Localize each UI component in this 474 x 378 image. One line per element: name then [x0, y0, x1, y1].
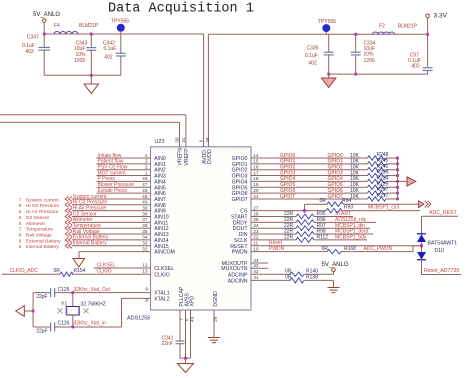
wire to Reset_AD7739 [421, 259, 423, 274]
svg-text:XTAL2: XTAL2 [154, 296, 170, 302]
junction 3.3V rail [426, 33, 429, 36]
svg-text:ADC_PWDN: ADC_PWDN [364, 246, 393, 252]
crystal Y1 32.768KHZ [72, 293, 74, 307]
svg-text:48: 48 [142, 176, 148, 182]
svg-text:10%: 10% [76, 52, 87, 58]
svg-text:38: 38 [142, 211, 148, 217]
junction C334 top [354, 33, 357, 36]
pin 7 PLLCAP with capacitor C341 [179, 310, 181, 341]
wire crystal left rail [32, 293, 34, 327]
svg-text:32Khz_Xtal_in: 32Khz_Xtal_in [74, 321, 106, 327]
svg-text:GPIO7: GPIO7 [280, 194, 296, 200]
svg-text:10K: 10K [350, 194, 360, 200]
wire AIN9 net row [65, 208, 68, 213]
svg-text:R140: R140 [306, 268, 318, 274]
svg-text:28: 28 [205, 137, 211, 143]
wire GPIO1 row with resistor R245 10K [251, 163, 368, 165]
svg-text:Data Acquisition 1: Data Acquisition 1 [108, 2, 254, 17]
wire PWDN row with resistor R168 0R net ADC_PWDN [251, 251, 327, 253]
svg-text:12: 12 [142, 262, 148, 268]
svg-text:CLKIO: CLKIO [97, 269, 112, 275]
svg-text:R93: R93 [344, 204, 353, 210]
svg-text:21: 21 [253, 194, 259, 200]
svg-text:TPY555: TPY555 [111, 18, 129, 24]
svg-text:DVDD: DVDD [207, 149, 213, 164]
svg-text:22pF: 22pF [36, 328, 47, 334]
ground left block [90, 75, 92, 84]
svg-text:BLM21P: BLM21P [398, 23, 418, 29]
svg-text:0.1uF: 0.1uF [104, 46, 117, 52]
svg-text:6: 6 [19, 215, 22, 221]
ground analog bottom [185, 358, 187, 363]
wire XTAL2 drop [121, 298, 123, 327]
pin 8 XTAL2 wire [122, 297, 151, 299]
svg-text:CLKIO_ADC: CLKIO_ADC [10, 268, 39, 274]
pin 6 AVDD [203, 34, 205, 147]
junction C343 top [90, 33, 93, 36]
svg-text:43: 43 [253, 263, 259, 269]
svg-text:CLKSEL: CLKSEL [97, 262, 116, 268]
junction CS [302, 208, 307, 213]
svg-text:Reset_AD7739: Reset_AD7739 [424, 268, 459, 274]
wire 5V rail [44, 33, 203, 35]
svg-text:Hi Air Pressure: Hi Air Pressure [26, 209, 59, 215]
wire AIN6 net row [97, 192, 151, 194]
svg-text:External Battery: External Battery [26, 238, 61, 244]
svg-text:CLKIO: CLKIO [154, 272, 170, 278]
pin 44 MUXOUTP stub [251, 262, 268, 264]
wire AIN10 net row [65, 214, 68, 219]
wire AIN11 net row [65, 220, 68, 225]
pin 49 XPD [190, 310, 192, 358]
svg-text:0R: 0R [320, 198, 327, 204]
ground DGND [208, 337, 220, 339]
pin 41 ADCINN with resistor R138 0R [251, 279, 290, 281]
svg-text:System current: System current [26, 197, 60, 203]
svg-text:37: 37 [142, 217, 148, 223]
svg-text:22nF: 22nF [162, 341, 173, 347]
resistor R93 0R [326, 208, 342, 212]
svg-text:R138: R138 [306, 274, 318, 280]
svg-text:3.3V: 3.3V [434, 13, 448, 20]
svg-text:6: 6 [19, 232, 22, 238]
wire RESET row net Reset [251, 245, 422, 247]
svg-text:49: 49 [189, 316, 195, 322]
svg-text:BAT54AWT1: BAT54AWT1 [428, 241, 458, 247]
svg-text:30: 30 [175, 137, 181, 143]
svg-text:ADCINP: ADCINP [228, 272, 248, 278]
svg-text:47: 47 [142, 182, 148, 188]
svg-text:ADS1258: ADS1258 [127, 315, 150, 321]
svg-text:8: 8 [145, 298, 148, 304]
svg-text:2: 2 [145, 165, 148, 171]
wire GPIO pull bus [397, 158, 399, 199]
wire VREFP to left edge [0, 114, 186, 116]
svg-text:F4: F4 [54, 23, 60, 29]
off-page connector GPIO arrow [398, 180, 408, 182]
wire GPIO6 row with resistor R227 10K [251, 192, 368, 194]
svg-text:29: 29 [213, 316, 219, 322]
svg-text:13: 13 [142, 269, 148, 275]
resistor R97 22R row net MCBSP1_din [251, 227, 296, 229]
wire GPIO4 row with resistor R234 10K [251, 180, 368, 182]
pin 43 MUXOUTN stub [251, 267, 268, 269]
svg-text:R217: R217 [377, 193, 389, 199]
svg-text:C335: C335 [307, 46, 319, 52]
svg-text:6: 6 [19, 209, 22, 215]
svg-text:15: 15 [253, 159, 259, 165]
svg-text:U23: U23 [155, 139, 165, 145]
wire AIN13 net row [65, 231, 68, 236]
svg-text:44: 44 [253, 258, 259, 264]
wire GPIO7 row with resistor R217 10K [251, 198, 368, 200]
pin 31 VREFP [185, 115, 187, 147]
wire GPIO3 row with resistor R239 10K [251, 175, 368, 177]
svg-text:402: 402 [308, 61, 317, 67]
ground right block [328, 74, 330, 78]
svg-text:32.768KHZ: 32.768KHZ [81, 302, 106, 308]
svg-text:402: 402 [104, 55, 113, 61]
resistor R98 22R row net MCBSP1_dout [251, 233, 296, 235]
svg-text:VREFP: VREFP [184, 148, 190, 166]
svg-text:D10: D10 [435, 248, 445, 254]
svg-text:6: 6 [19, 221, 22, 227]
svg-text:Altimeter: Altimeter [26, 221, 46, 227]
svg-text:C125: C125 [58, 287, 70, 293]
junction diode center [420, 244, 423, 247]
svg-text:Hi O2 Pressure: Hi O2 Pressure [26, 203, 60, 209]
svg-text:1206: 1206 [364, 58, 375, 64]
svg-text:34: 34 [142, 235, 148, 241]
wire analog ground bar [180, 357, 191, 359]
capacitor C343 [90, 34, 92, 48]
resistor R94 0R branch [304, 204, 306, 210]
svg-text:Internal Battery: Internal Battery [26, 244, 60, 250]
svg-text:Y1: Y1 [61, 302, 67, 308]
capacitor C334 [355, 34, 357, 52]
svg-text:6: 6 [198, 139, 204, 142]
pin 12 CLKSEL wire [93, 267, 150, 269]
svg-text:TPY556: TPY556 [318, 19, 336, 25]
svg-text:32: 32 [142, 246, 148, 252]
capacitor C347 [43, 34, 45, 47]
svg-text:42: 42 [253, 269, 259, 275]
wire ADC_REST drop [421, 216, 423, 234]
wire 3.3V rail [208, 33, 427, 35]
svg-text:AINCOM: AINCOM [154, 250, 175, 256]
pin 5 AVSS [185, 310, 187, 358]
resistor R95 22R row net START [251, 216, 296, 218]
svg-text:7: 7 [19, 227, 22, 233]
svg-text:14: 14 [253, 153, 259, 159]
capacitor C342 [120, 34, 122, 53]
resistor R96 22R row net ADS1256_rdy [251, 221, 296, 223]
wire VREFN to left edge [0, 121, 180, 123]
svg-text:6: 6 [19, 203, 22, 209]
svg-text:BLM21P: BLM21P [79, 23, 99, 29]
svg-text:0.1uF: 0.1uF [305, 53, 318, 59]
svg-text:ADCINN: ADCINN [228, 278, 248, 284]
resistor R112 22R row net MCBSP1_bdx [251, 239, 296, 241]
svg-text:10uF: 10uF [74, 46, 85, 52]
svg-text:XPD: XPD [189, 296, 195, 307]
svg-text:CLKSEL: CLKSEL [154, 266, 174, 272]
svg-text:C347: C347 [27, 35, 39, 41]
wire 5V stem [43, 22, 45, 34]
capacitor C335 [328, 34, 330, 52]
svg-text:10%: 10% [364, 51, 375, 57]
ground crystal left [32, 310, 35, 313]
svg-text:4: 4 [145, 153, 148, 159]
svg-text:6: 6 [19, 238, 22, 244]
svg-text:Temperature: Temperature [26, 227, 54, 233]
svg-text:41: 41 [253, 275, 259, 281]
svg-text:7: 7 [19, 197, 22, 203]
svg-text:0R: 0R [54, 268, 61, 274]
svg-text:19: 19 [253, 182, 259, 188]
wire AIN15 net row [65, 243, 68, 248]
diode D10 BAT54AWT1 upper [417, 233, 426, 235]
wire AIN12 net row [65, 226, 68, 231]
pin 28 DVDD [207, 34, 209, 147]
svg-text:22R: 22R [284, 235, 294, 241]
IC U23 ADS1258 body [151, 147, 252, 310]
svg-text:36: 36 [142, 223, 148, 229]
svg-text:Rail Voltage: Rail Voltage [26, 232, 52, 238]
svg-text:33: 33 [142, 241, 148, 247]
off-page connector arrow small [419, 201, 425, 208]
wire AIN1 net row [97, 163, 151, 165]
svg-text:7: 7 [179, 318, 185, 321]
svg-text:C126: C126 [58, 321, 70, 327]
junction C343 bottom [90, 74, 93, 77]
svg-text:F2: F2 [379, 23, 385, 29]
power symbol 5V_ANLG right [333, 272, 335, 275]
svg-text:MUXOUTN: MUXOUTN [221, 266, 247, 272]
ground ADCINN [333, 280, 335, 287]
svg-text:31: 31 [181, 137, 187, 143]
svg-text:402: 402 [411, 64, 420, 70]
pin 32 AINCOM wire [79, 251, 151, 253]
svg-text:O2 Sensor: O2 Sensor [26, 215, 50, 221]
pin 42 ADCINP with resistor R140 0R [251, 273, 290, 275]
svg-text:1206: 1206 [74, 58, 85, 64]
svg-text:ADC_REST: ADC_REST [429, 210, 458, 216]
wire AIN2 net row [97, 169, 151, 171]
svg-text:GPIO7: GPIO7 [232, 197, 248, 203]
svg-text:46: 46 [142, 188, 148, 194]
svg-text:Internal Battery: Internal Battery [73, 241, 107, 247]
pin 9 XTAL1 wire with capacitor C125 [33, 292, 51, 294]
junction C334 bottom [354, 73, 357, 76]
pin 30 VREFN [179, 122, 181, 146]
svg-text:402: 402 [26, 49, 35, 55]
wire CS row [251, 210, 326, 212]
svg-text:PWDN: PWDN [269, 246, 285, 252]
svg-text:17: 17 [253, 170, 259, 176]
diode D10 lower [417, 252, 426, 260]
wire AIN7 net row [65, 196, 68, 201]
wire GPIO5 row with resistor R229 10K [251, 186, 368, 188]
junction C335 bottom [327, 73, 330, 76]
svg-text:1: 1 [145, 170, 148, 176]
svg-text:22pF: 22pF [36, 294, 47, 300]
svg-text:18: 18 [253, 176, 259, 182]
wire AIN5 net row [97, 186, 151, 188]
svg-text:39: 39 [142, 205, 148, 211]
wire AIN0 net row [97, 157, 151, 159]
svg-text:PWDN: PWDN [232, 250, 248, 256]
svg-text:20: 20 [253, 188, 259, 194]
svg-text:R154: R154 [74, 268, 86, 274]
svg-text:45: 45 [142, 194, 148, 200]
wire AIN4 net row [97, 180, 151, 182]
svg-text:35: 35 [142, 229, 148, 235]
wire AIN8 net row [65, 202, 68, 207]
svg-text:32Khz_Xtal_Out: 32Khz_Xtal_Out [74, 287, 111, 293]
resistor R154 0R [60, 272, 73, 276]
svg-text:DGND: DGND [213, 291, 219, 307]
svg-text:40: 40 [142, 200, 148, 206]
svg-text:16: 16 [253, 165, 259, 171]
svg-text:5V_ANLG: 5V_ANLG [33, 12, 60, 18]
wire GPIO0 row with resistor R248 10K [251, 157, 368, 159]
svg-text:9: 9 [145, 286, 148, 292]
wire AIN3 net row [97, 175, 151, 177]
wire AIN14 net row [65, 237, 68, 242]
wire xtal bottom row with capacitor C126 [33, 326, 51, 328]
ferrite bead F2 BLM21P [373, 32, 395, 34]
wire right block bottom rail [329, 73, 428, 75]
ferrite bead F4 BLM21P [54, 31, 78, 34]
svg-text:R168: R168 [344, 246, 356, 252]
svg-text:VREFN: VREFN [178, 148, 184, 166]
svg-text:GPIO7: GPIO7 [328, 194, 344, 200]
ground AINCOM [78, 252, 80, 259]
wire left block bottom rail [44, 74, 121, 76]
svg-text:3: 3 [145, 159, 148, 165]
pin 29 DGND [213, 310, 215, 338]
svg-text:MCBSP1_cs3: MCBSP1_cs3 [368, 204, 399, 210]
svg-text:R94: R94 [342, 198, 351, 204]
capacitor C97 [427, 34, 429, 68]
svg-text:5V_ANLG: 5V_ANLG [322, 262, 349, 268]
pin 13 CLKIO wire [72, 273, 151, 275]
wire GPIO2 row with resistor R242 10K [251, 169, 368, 171]
svg-text:6: 6 [19, 244, 22, 250]
power symbol 3.3V [426, 14, 430, 18]
